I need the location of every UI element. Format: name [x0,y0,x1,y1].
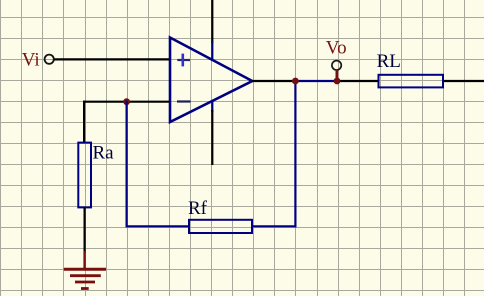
wire : between output junctions (navy) [294,80,338,82]
wire : Vo stub (maroon) [335,70,338,82]
op-amp U1 triangle [170,38,252,123]
wire : Ra to ground [83,207,85,253]
wire : op-amp output (black) [252,80,296,82]
op-amp minus mark [177,100,191,102]
wire : feedback bottom right (navy) [252,225,297,227]
svg-text:Vi: Vi [22,50,40,71]
svg-text:RL: RL [377,51,401,72]
wire : down to Ra [83,101,85,143]
port Vi terminal circle [45,55,54,64]
svg-text:Vo: Vo [326,38,347,59]
wire : to RL (black) [336,80,379,82]
resistor RL [379,75,444,88]
wire : Vi to + input [54,58,169,60]
wire : inverting input horizontal [83,101,169,103]
wire : feedback left vertical (navy) [125,101,127,228]
wire : negative supply stub below op-amp (black) [211,110,213,165]
ground symbol [64,251,106,289]
wire : RL to right edge (black) [443,80,484,82]
junction : output node [292,78,299,85]
pin : op-amp V- pin (navy) [211,100,213,112]
op-amp plus mark [177,59,190,61]
svg-text:Rf: Rf [188,198,208,219]
svg-text:Ra: Ra [93,142,115,163]
port Vo terminal circle [332,61,341,70]
resistor Ra [78,143,91,208]
pin : op-amp V+ pin (navy) [211,41,213,61]
wire : feedback right vertical (navy) [294,80,296,227]
wire : positive supply vertical (black, off top edge) [211,0,213,43]
wire : feedback bottom left (navy) [126,225,190,227]
resistor Rf [189,220,252,233]
junction : inverting input node [123,98,130,105]
junction : Vo node [334,78,341,85]
